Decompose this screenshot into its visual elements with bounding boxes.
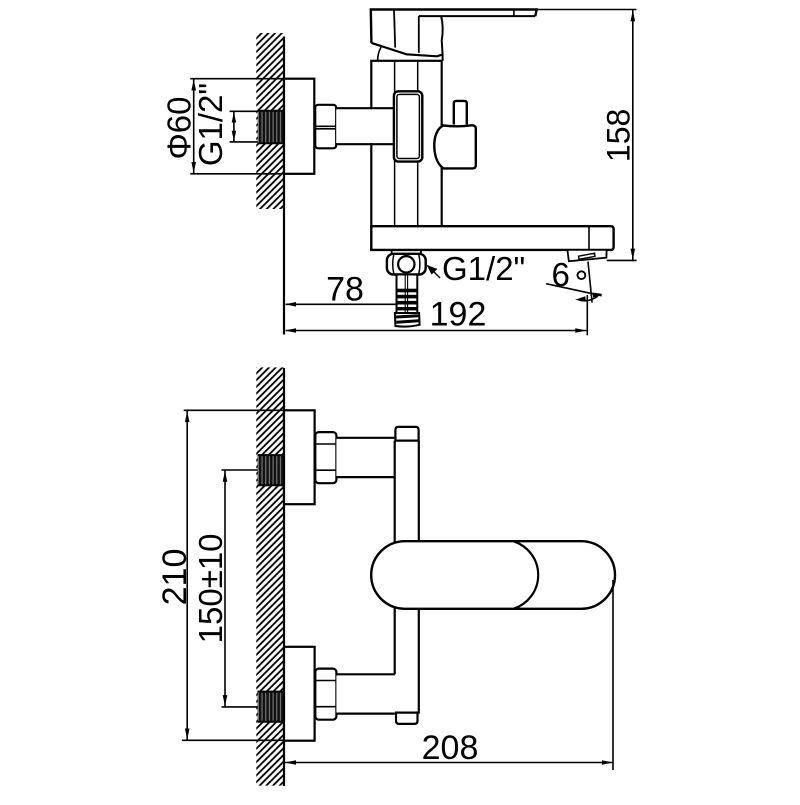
label 6 degrees — [552, 256, 586, 293]
extension line for 192 right end (vertical) — [586, 295, 588, 335]
spout (side view) — [371, 226, 613, 250]
angle ray 6deg from vertical — [588, 262, 592, 303]
riser column lower shaft (installation view) — [395, 607, 419, 713]
riser column bottom cap (installation view) — [396, 713, 418, 724]
wall hatch (side view) — [256, 33, 284, 209]
hose adapter with thread (side view) — [395, 275, 420, 327]
diverter stem (side view) — [454, 101, 467, 125]
svg-text:208: 208 — [422, 729, 479, 767]
mounting nut (side view) — [315, 105, 336, 149]
shower hose union under spout (side view) — [387, 250, 426, 275]
faucet body (side view) — [371, 61, 441, 251]
lower eccentric pipe (installation view) — [336, 674, 394, 713]
extension lines Phi60 — [190, 79, 314, 174]
svg-text:210: 210 — [156, 549, 194, 606]
svg-text:158: 158 — [601, 109, 637, 162]
svg-text:6: 6 — [552, 256, 570, 293]
dimension line 150±10 — [223, 470, 228, 707]
mixer body capsule (installation view) — [371, 541, 615, 609]
handle lever (side view) — [371, 10, 537, 61]
extension line 208 right — [612, 580, 614, 770]
wall hatch (installation view) — [256, 367, 284, 785]
upper wall thread (installation view) — [258, 455, 284, 486]
riser column top cap (installation view) — [395, 427, 418, 441]
decorative plate on body (rounded rectangle, side view) — [394, 91, 422, 161]
dimension line Phi60 — [191, 79, 196, 174]
aerator (tilted 6deg, side view) — [567, 250, 606, 261]
upper eccentric pipe (installation view) — [336, 438, 394, 477]
svg-text:G1/2": G1/2" — [442, 250, 525, 287]
dimension 192 — [285, 328, 587, 333]
svg-text:G1/2": G1/2" — [192, 83, 229, 166]
extension lines 150±10 — [222, 470, 259, 707]
svg-text:192: 192 — [430, 296, 487, 334]
capsule inner arc (installation view) — [514, 541, 538, 608]
riser column upper shaft (installation view) — [395, 441, 419, 544]
diverter knob (side view) — [434, 125, 476, 168]
extension line 158 bottom — [607, 259, 637, 261]
leader arrow G1/2 (hose union) — [427, 265, 440, 278]
upper flange (installation view) — [284, 410, 315, 504]
angle ray slanted — [546, 284, 601, 296]
thread in wall G1/2 (side view) — [258, 110, 284, 143]
extension lines 210 — [182, 410, 312, 740]
svg-text:78: 78 — [326, 271, 364, 309]
lower wall thread (installation view) — [258, 691, 284, 722]
dimension 208 — [285, 760, 613, 765]
svg-text:150±10: 150±10 — [192, 533, 229, 643]
upper nut (installation view) — [315, 432, 336, 483]
dimension line 210 — [185, 410, 190, 740]
angle arc with arrows — [575, 293, 603, 302]
dimension 78 — [285, 302, 397, 307]
wall face line (installation view) — [283, 368, 285, 786]
lower nut (installation view) — [315, 669, 336, 720]
extension line 158 top (continuation of handle top) — [537, 9, 637, 11]
flange escutcheon (side view) — [284, 79, 314, 174]
extension lines G1/2 thread height — [230, 111, 259, 142]
lower flange (installation view) — [284, 647, 315, 741]
wall face line (side view) — [283, 37, 285, 335]
dimension line 158 — [631, 10, 636, 262]
inlet pipe between nut and body (side view) — [336, 108, 394, 144]
dimension line G1/2 (small, arrows out) — [232, 111, 237, 142]
